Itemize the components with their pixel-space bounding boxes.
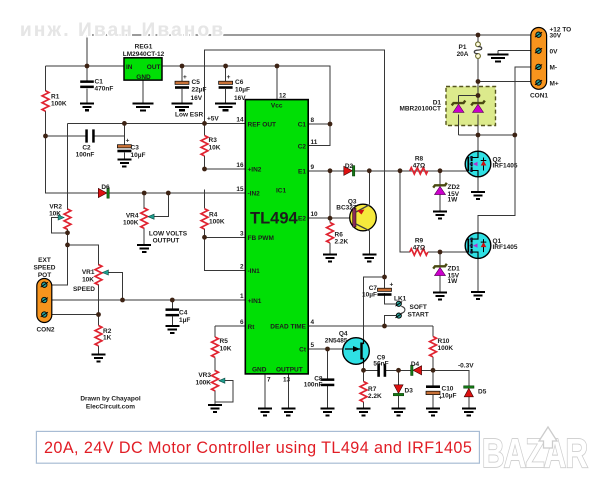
svg-text:POT: POT — [38, 272, 51, 279]
wire: CON1 0V to ground — [498, 50, 539, 52]
ground under Q3 — [362, 255, 376, 262]
svg-text:10µF: 10µF — [131, 152, 146, 159]
IC U1 TL494 box — [245, 100, 308, 374]
svg-text:LM2940CT-12: LM2940CT-12 — [123, 51, 165, 58]
svg-text:D5: D5 — [478, 389, 487, 396]
watermark BAZAR logo — [482, 430, 588, 476]
ground under R2 — [92, 355, 106, 362]
svg-text:Rt: Rt — [248, 324, 256, 331]
svg-text:IRF1405: IRF1405 — [493, 244, 518, 251]
TL494 pin 7 lead — [264, 374, 266, 408]
svg-text:DEAD TIME: DEAD TIME — [270, 324, 306, 331]
svg-text:C10: C10 — [442, 386, 454, 393]
wire: Q4 source down to C9 row — [363, 363, 365, 370]
svg-text:Ct: Ct — [299, 347, 307, 354]
svg-text:LOW VOLTS: LOW VOLTS — [149, 231, 188, 238]
D1 right schottky diode — [471, 101, 485, 113]
diode D2 — [344, 166, 355, 176]
svg-text:D6: D6 — [101, 184, 110, 191]
svg-text:GND: GND — [252, 367, 267, 374]
svg-text:OUT: OUT — [147, 64, 161, 71]
svg-text:-IN1: -IN1 — [248, 268, 261, 275]
wire: Q2 drain column — [477, 135, 479, 151]
wire: Q3 emitter up to E1 row — [368, 171, 370, 205]
svg-text:30V: 30V — [550, 32, 562, 39]
capacitor C3 — [117, 145, 131, 153]
svg-text:R6: R6 — [335, 232, 344, 239]
svg-text:IN: IN — [126, 64, 133, 71]
svg-text:0V: 0V — [550, 48, 559, 55]
wire: D5 anode to ground — [468, 397, 470, 408]
wire: VR4 top lead — [143, 193, 145, 209]
ground under ZD2 — [433, 212, 447, 219]
svg-text:R9: R9 — [415, 238, 424, 245]
wire: VR4 wiper to -IN2 row — [150, 193, 169, 217]
zener ZD1 — [433, 264, 447, 276]
wire: C10 leads — [432, 370, 434, 385]
svg-text:C1: C1 — [298, 122, 307, 129]
svg-text:1µF: 1µF — [179, 317, 190, 324]
ground under Q2 — [471, 192, 485, 199]
ground under D5 — [462, 409, 476, 416]
svg-text:D4: D4 — [411, 361, 420, 368]
svg-text:E2: E2 — [298, 216, 306, 223]
svg-text:OUTPUT: OUTPUT — [276, 367, 303, 374]
svg-text:M-: M- — [550, 65, 558, 72]
wire: Rt row — [215, 325, 245, 327]
svg-text:+5V: +5V — [207, 116, 219, 123]
transistor Q4 2N5485 (JFET) — [343, 338, 370, 365]
svg-text:R3: R3 — [209, 137, 218, 144]
svg-text:BC327: BC327 — [336, 204, 357, 211]
wire: C3 column and leads — [123, 123, 125, 144]
diode D6 — [98, 188, 109, 198]
svg-text:6: 6 — [240, 319, 244, 326]
svg-text:P1: P1 — [459, 44, 467, 51]
svg-text:-0.3V: -0.3V — [458, 363, 474, 370]
svg-text:C1: C1 — [95, 79, 104, 86]
svg-text:10µF: 10µF — [442, 393, 457, 400]
svg-text:3: 3 — [240, 230, 244, 237]
wire: R1 column bottom to -IN2 row — [46, 111, 246, 193]
svg-text:инж. Иван Иванов: инж. Иван Иванов — [20, 20, 225, 41]
svg-text:1K: 1K — [103, 335, 112, 342]
svg-text:C2: C2 — [82, 145, 91, 152]
svg-text:+: + — [183, 74, 187, 81]
capacitor C6 — [219, 81, 233, 89]
wire: R6 leads — [329, 218, 331, 222]
svg-text:10µF: 10µF — [362, 292, 377, 299]
ground under REG1 — [133, 104, 154, 111]
svg-text:SPEED: SPEED — [33, 265, 55, 272]
svg-text:VR4: VR4 — [126, 213, 139, 220]
wire: D1 right diode anode lead — [477, 114, 479, 135]
svg-text:CON1: CON1 — [530, 93, 548, 100]
capacitor C7 — [378, 288, 392, 296]
wire: D1 cathode jumper — [459, 95, 479, 97]
svg-text:BAZAR: BAZAR — [482, 430, 588, 476]
svg-text:VR1: VR1 — [82, 269, 95, 276]
link LK1 soft start — [395, 301, 404, 318]
svg-text:+IN1: +IN1 — [248, 298, 262, 305]
wire: D1 left diode leads — [458, 96, 460, 103]
wire: E1/E2 tie column — [329, 171, 331, 218]
connector CON1 — [531, 28, 547, 90]
svg-text:CON2: CON2 — [36, 327, 54, 334]
svg-text:SPEED: SPEED — [73, 286, 95, 293]
wire: C7 branch to Q4 drain — [364, 277, 385, 339]
svg-text:D2: D2 — [345, 163, 354, 170]
resistor R3 — [201, 136, 208, 156]
wire: M+ row to CON1 — [478, 81, 539, 83]
svg-text:ZD1: ZD1 — [448, 266, 461, 273]
svg-text:22µF: 22µF — [192, 87, 207, 94]
wire: VR1 bottom lead — [98, 285, 100, 315]
ground under R6 — [323, 255, 337, 262]
svg-text:13: 13 — [283, 377, 291, 384]
svg-text:9: 9 — [311, 164, 315, 171]
svg-text:GND: GND — [136, 74, 151, 81]
capacitor C5 — [175, 81, 189, 89]
svg-text:10K: 10K — [49, 211, 61, 218]
wire: Ct row pin5 to Q4 gate — [308, 348, 345, 350]
capacitor C8 — [321, 378, 335, 386]
wire: R4 leads — [204, 190, 206, 209]
wire: R5 leads — [214, 326, 216, 337]
svg-text:47Ω: 47Ω — [413, 163, 425, 170]
svg-text:IC1: IC1 — [276, 188, 287, 195]
capacitor C2 (horizontal) — [85, 129, 94, 142]
wire: C1 column from top rail down to Vcc row — [86, 35, 88, 66]
svg-text:EXT: EXT — [38, 257, 51, 264]
wire: Q3 collector to ground — [368, 231, 370, 254]
svg-text:100K: 100K — [195, 380, 211, 387]
potentiometer VR2 — [64, 209, 71, 229]
wire: R2 leads — [98, 315, 100, 326]
svg-text:10K: 10K — [209, 145, 221, 152]
wire: VR4 bottom lead to ground — [143, 228, 145, 244]
svg-text:C2: C2 — [298, 144, 307, 151]
svg-text:20A, 24V DC Motor Controller u: 20A, 24V DC Motor Controller using TL494… — [44, 439, 472, 457]
svg-text:100K: 100K — [51, 101, 67, 108]
wire: R3 leads — [204, 123, 206, 135]
wire: R10 top lead — [432, 326, 434, 337]
svg-text:12: 12 — [279, 93, 287, 100]
svg-text:C4: C4 — [179, 310, 188, 317]
svg-text:VR3: VR3 — [198, 372, 211, 379]
wire: Vcc row right segment REG OUT to corner, down to pin8/pin11 — [162, 66, 330, 146]
svg-text:Q4: Q4 — [339, 331, 348, 338]
svg-text:REF OUT: REF OUT — [248, 122, 277, 129]
ground under C1 — [80, 103, 94, 110]
svg-text:2: 2 — [240, 264, 244, 271]
svg-text:ZD2: ZD2 — [448, 184, 461, 191]
ground under C3 — [117, 160, 131, 167]
svg-text:16: 16 — [236, 162, 244, 169]
wire: R9 branch column — [400, 171, 410, 252]
resistor R2 — [95, 326, 102, 346]
wire: VR3 wiper feedback — [215, 381, 233, 402]
svg-text:R4: R4 — [209, 212, 218, 219]
svg-text:D3: D3 — [405, 388, 414, 395]
svg-text:C5: C5 — [192, 79, 201, 86]
TL494 pin 13 lead — [287, 374, 289, 408]
ground under R7 — [357, 409, 371, 416]
wire: C7 leads and LK1 link wires — [384, 277, 386, 288]
resistor R1 — [42, 91, 49, 111]
wire: C6 leads — [225, 66, 227, 81]
svg-text:1W: 1W — [448, 197, 459, 204]
wire: M- column from CON1 down to Q1 drain — [478, 67, 539, 233]
wire: dead time row pin4 — [308, 325, 433, 327]
wire: C1 leads — [86, 66, 88, 80]
ground under TL494 pin7 — [258, 409, 272, 416]
svg-text:IRF1405: IRF1405 — [493, 162, 518, 169]
wire: R7 leads — [363, 370, 365, 381]
ground near CON1 0V — [488, 55, 509, 62]
ground under D3 — [392, 409, 406, 416]
potentiometer VR1 — [95, 265, 102, 285]
capacitor C4 — [166, 308, 180, 316]
zener ZD2 — [433, 183, 447, 195]
svg-text:SOFT: SOFT — [410, 304, 427, 311]
svg-text:2N5485: 2N5485 — [325, 338, 348, 345]
svg-text:47Ω: 47Ω — [413, 245, 425, 252]
svg-text:100K: 100K — [123, 220, 139, 227]
svg-text:14: 14 — [236, 117, 244, 124]
svg-text:R7: R7 — [368, 386, 377, 393]
svg-text:100K: 100K — [438, 345, 454, 352]
svg-text:R8: R8 — [415, 156, 424, 163]
wire: VR2 wiper feedback — [52, 218, 68, 233]
svg-text:8: 8 — [311, 117, 315, 124]
ground under C10 — [426, 409, 440, 416]
svg-text:E1: E1 — [298, 168, 306, 175]
wire: C2 row from R1 column — [46, 135, 86, 137]
svg-text:Drawn by Chayapol: Drawn by Chayapol — [80, 396, 141, 403]
wire: Vcc row left segment (input side) — [46, 65, 125, 67]
capacitor C9 (horizontal) — [377, 364, 386, 377]
svg-text:OUTPUT: OUTPUT — [153, 238, 180, 245]
wire: R10 bottom lead — [432, 357, 434, 370]
wire: +IN2 row — [205, 168, 246, 170]
wire: ZD1 leads — [439, 252, 441, 266]
wire: C4 leads — [171, 300, 173, 308]
wire: Q2 source to ground — [477, 177, 479, 191]
svg-text:4: 4 — [311, 319, 315, 326]
ground under C5 — [172, 103, 193, 110]
resistor R8 — [410, 168, 428, 174]
wire: REG1 GND lead — [142, 80, 144, 102]
wire: Q1 source to ground — [477, 258, 479, 291]
wire: D4 anode to -0.3V corner and D5 — [420, 370, 469, 386]
svg-text:16V: 16V — [234, 95, 246, 102]
svg-text:VR2: VR2 — [49, 204, 62, 211]
wire: main column fuse to D1 cathode — [477, 58, 479, 102]
wire: M- row — [459, 134, 515, 136]
ground under ZD1 — [433, 293, 447, 300]
resistor R10 — [430, 337, 437, 357]
capacitor C10 (reversed polarity) — [426, 385, 443, 401]
svg-text:C3: C3 — [131, 145, 140, 152]
ground under C8 — [321, 409, 335, 416]
resistor R7 — [360, 382, 367, 402]
svg-text:+: + — [126, 138, 130, 145]
svg-text:2.2K: 2.2K — [335, 239, 349, 246]
svg-text:M+: M+ — [550, 81, 559, 88]
svg-text:56nF: 56nF — [373, 361, 388, 368]
ground under C4 — [165, 326, 179, 333]
svg-text:ElecCircuit.com: ElecCircuit.com — [86, 404, 135, 411]
svg-text:20A: 20A — [457, 51, 469, 58]
wire: C5 leads — [181, 66, 183, 81]
D1 left schottky diode — [452, 101, 466, 113]
IC regulator REG1 box — [124, 58, 162, 80]
wire: ZD2 leads — [439, 171, 441, 185]
potentiometer VR3 — [212, 371, 219, 391]
capacitor C1 — [80, 80, 94, 88]
ground under Q1 — [471, 292, 485, 299]
wire: VR2 column from +5V row — [67, 123, 69, 210]
potentiometer VR4 — [141, 208, 148, 228]
wire: pin 12 Vcc column — [276, 66, 278, 100]
fuse P1 — [474, 35, 482, 58]
svg-text:5: 5 — [311, 342, 315, 349]
svg-text:16V: 16V — [191, 95, 203, 102]
svg-text:+IN2: +IN2 — [248, 167, 262, 174]
wire: R1 column top — [45, 66, 47, 91]
svg-text:2.2K: 2.2K — [368, 393, 382, 400]
svg-text:C6: C6 — [235, 79, 244, 86]
svg-text:10µF: 10µF — [235, 87, 250, 94]
svg-text:10: 10 — [311, 211, 319, 218]
svg-text:11: 11 — [311, 139, 318, 146]
wire: C8 leads — [327, 349, 329, 378]
resistor R5 — [212, 337, 219, 357]
wire: top +12V rail — [87, 34, 539, 36]
wire: VR1 wiper to +IN1 row — [104, 273, 123, 301]
transistor Q1 IRF1405 (N-MOSFET) — [465, 233, 491, 259]
svg-text:+: + — [390, 282, 394, 289]
svg-text:1W: 1W — [448, 278, 459, 285]
title box — [36, 431, 479, 463]
wire: +5V soft-start rail up-over-down to C7 — [205, 50, 385, 277]
wire: R4 top to +IN2 row (through -IN2 row crossing) handled above; FB row — [205, 236, 246, 238]
svg-text:Low ESR: Low ESR — [175, 112, 203, 119]
wire: R9 to Q1 gate — [428, 251, 468, 253]
svg-text:1: 1 — [240, 293, 244, 300]
resistor R4 — [201, 209, 208, 229]
ground under C6 — [215, 103, 236, 110]
resistor R9 — [410, 249, 428, 255]
transistor Q2 IRF1405 (N-MOSFET) — [465, 151, 491, 177]
ground under VR3 — [208, 405, 222, 412]
wire: pin 8 row — [308, 123, 330, 125]
wire: C9 row right to D4 — [386, 369, 411, 371]
wire: VR2 body bottom lead — [67, 229, 69, 245]
svg-text:R10: R10 — [438, 338, 450, 345]
wire: node to VR1 top — [68, 245, 99, 266]
wire: E1 row pin9 to Q2 gate — [308, 170, 468, 172]
svg-text:R5: R5 — [220, 338, 229, 345]
wire: E2 row pin10 to Q3 base — [308, 217, 352, 219]
svg-text:Vcc: Vcc — [271, 103, 283, 110]
svg-text:LK1: LK1 — [394, 296, 407, 303]
D1 dual schottky dashed box — [446, 87, 496, 126]
resistor R6 — [327, 223, 334, 243]
diode D4 (pointing left) — [411, 365, 422, 375]
svg-text:-IN2: -IN2 — [248, 191, 261, 198]
svg-text:10K: 10K — [220, 346, 232, 353]
wire: C9 row left — [364, 369, 378, 371]
svg-text:10K: 10K — [82, 277, 94, 284]
svg-text:100nF: 100nF — [76, 152, 95, 159]
svg-text:15: 15 — [236, 186, 244, 193]
svg-text:100K: 100K — [209, 219, 225, 226]
wire: +5V row — [68, 122, 246, 124]
connector CON2 — [37, 279, 52, 323]
transistor Q3 BC327 (PNP) — [350, 204, 377, 231]
svg-text:+: + — [227, 74, 231, 81]
svg-text:TL494: TL494 — [250, 210, 299, 228]
wire: +IN1 row from CON2 middle pin — [44, 299, 245, 301]
svg-text:REG1: REG1 — [135, 44, 153, 51]
ground under TL494 pin13 — [281, 409, 295, 416]
svg-text:MBR20100CT: MBR20100CT — [399, 105, 441, 112]
wire: CON2 bottom pin row — [44, 314, 98, 316]
svg-text:FB PWM: FB PWM — [248, 235, 274, 242]
diode D5 (pointing up, cathode top) — [464, 386, 474, 397]
ground under VR4 — [137, 245, 151, 252]
wire: node down to CON2 top pin — [44, 245, 67, 285]
svg-text:100nF: 100nF — [304, 382, 323, 389]
svg-text:START: START — [408, 312, 429, 319]
svg-text:R1: R1 — [51, 94, 60, 101]
diode D3 (pointing down) — [393, 385, 403, 396]
svg-text:470nF: 470nF — [95, 86, 114, 93]
wire: FB tied to -IN1 — [205, 237, 246, 270]
wire: D3 leads — [398, 370, 400, 385]
svg-text:7: 7 — [267, 377, 271, 384]
wire: VR3 bottom lead — [214, 391, 216, 405]
